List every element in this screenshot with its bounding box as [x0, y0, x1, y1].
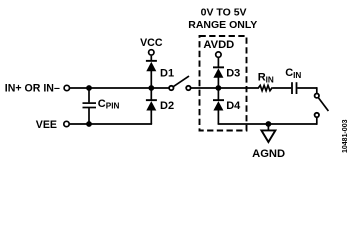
svg-text:D4: D4 — [226, 100, 241, 112]
svg-text:10481-003: 10481-003 — [342, 119, 349, 153]
svg-text:IN+ OR IN–: IN+ OR IN– — [5, 83, 60, 95]
svg-text:AGND: AGND — [252, 148, 285, 160]
svg-text:D1: D1 — [160, 67, 174, 79]
svg-text:AVDD: AVDD — [203, 39, 234, 51]
svg-text:D2: D2 — [160, 100, 174, 112]
svg-text:VEE: VEE — [36, 119, 57, 131]
svg-text:RANGE ONLY: RANGE ONLY — [188, 19, 257, 31]
svg-text:0V TO 5V: 0V TO 5V — [201, 6, 247, 18]
svg-text:D3: D3 — [226, 67, 240, 79]
svg-text:VCC: VCC — [140, 37, 163, 49]
